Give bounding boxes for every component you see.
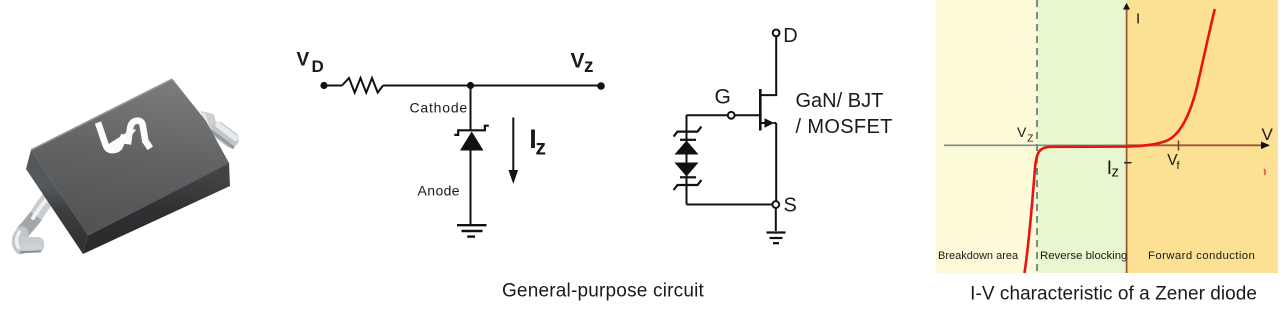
svg-text:General-purpose circuit: General-purpose circuit xyxy=(502,281,705,302)
svg-text:V: V xyxy=(1017,124,1027,140)
svg-text:Z: Z xyxy=(1027,134,1033,145)
svg-text:Reverse blocking: Reverse blocking xyxy=(1040,250,1127,262)
svg-text:V: V xyxy=(1262,125,1274,144)
svg-text:z: z xyxy=(584,56,594,77)
svg-text:Cathode: Cathode xyxy=(409,100,468,116)
svg-text:I: I xyxy=(1136,11,1140,28)
svg-text:Forward conduction: Forward conduction xyxy=(1148,250,1255,262)
svg-text:/ MOSFET: / MOSFET xyxy=(796,116,893,138)
svg-text:Anode: Anode xyxy=(418,183,460,199)
svg-text:Breakdown area: Breakdown area xyxy=(938,250,1019,262)
svg-text:z: z xyxy=(1112,164,1120,181)
svg-text:I-V characteristic of a Zener: I-V characteristic of a Zener diode xyxy=(970,283,1257,304)
svg-text:V: V xyxy=(571,50,585,73)
svg-text:G: G xyxy=(715,86,731,109)
svg-text:z: z xyxy=(536,137,547,160)
svg-text:V: V xyxy=(297,49,310,70)
svg-text:GaN/ BJT: GaN/ BJT xyxy=(796,90,884,112)
svg-text:D: D xyxy=(783,25,797,47)
svg-text:S: S xyxy=(784,194,797,216)
svg-text:D: D xyxy=(312,57,324,76)
